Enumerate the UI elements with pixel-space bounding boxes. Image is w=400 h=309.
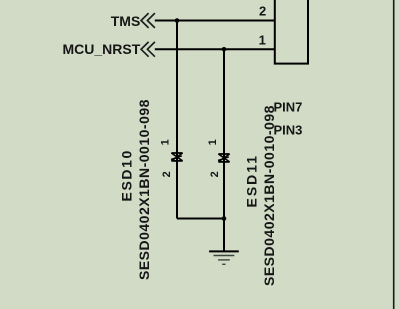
svg-text:SESD0402X1BN-0010-098: SESD0402X1BN-0010-098 <box>261 105 277 286</box>
svg-text:ESD10: ESD10 <box>119 149 135 201</box>
svg-text:ESD11: ESD11 <box>244 154 260 208</box>
svg-text:MCU_NRST: MCU_NRST <box>63 41 141 57</box>
svg-text:2: 2 <box>259 3 266 18</box>
svg-text:PIN3: PIN3 <box>274 123 303 138</box>
svg-text:TMS: TMS <box>111 13 141 29</box>
svg-text:1: 1 <box>259 33 266 48</box>
svg-text:PIN7: PIN7 <box>274 99 303 114</box>
svg-text:2: 2 <box>209 171 221 177</box>
svg-text:SESD0402X1BN-0010-098: SESD0402X1BN-0010-098 <box>136 99 152 280</box>
svg-text:1: 1 <box>160 139 172 145</box>
svg-text:2: 2 <box>161 171 173 177</box>
svg-text:1: 1 <box>207 139 219 145</box>
